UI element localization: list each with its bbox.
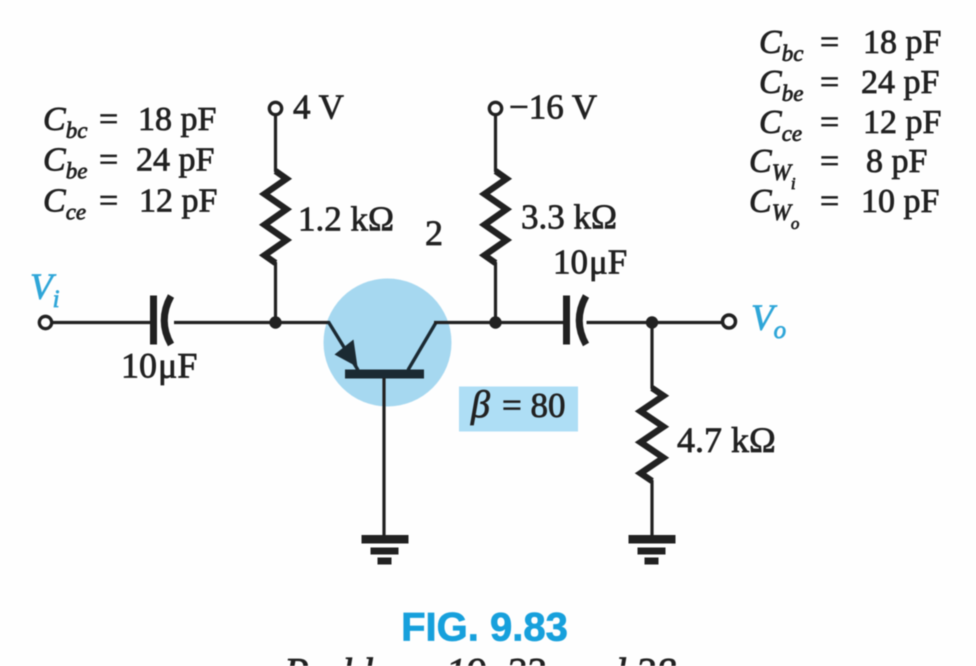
svg-text:12 pF: 12 pF <box>139 183 217 220</box>
wire R2 to node C <box>494 262 497 323</box>
transistor Q1 emitter diagonal <box>329 322 359 370</box>
transistor Q1 emitter arrow <box>335 340 358 368</box>
svg-text:FIG. 9.83: FIG. 9.83 <box>401 606 568 650</box>
svg-text:10 pF: 10 pF <box>861 183 939 220</box>
svg-text:=: = <box>99 101 118 138</box>
svg-text:Cce: Cce <box>43 183 86 225</box>
capacitor C1 left plate <box>150 296 157 345</box>
wire -16V terminal to R2 <box>494 115 497 173</box>
capacitor C2 left plate <box>563 296 570 345</box>
svg-text:4 V: 4 V <box>293 88 344 127</box>
wire node C to C2 <box>496 321 565 324</box>
svg-text:Cbe: Cbe <box>759 64 803 106</box>
svg-text:Problems 19, 23, and 38: Problems 19, 23, and 38 <box>283 650 676 666</box>
svg-text:−16 V: −16 V <box>509 88 597 127</box>
svg-text:Cbc: Cbc <box>43 101 87 143</box>
svg-text:=: = <box>99 142 118 179</box>
label beta box highlight <box>459 387 578 432</box>
label Cce right line 3 <box>759 104 941 146</box>
label Cbe right line 2 <box>759 64 939 106</box>
label CWo right line 5 <box>749 183 939 233</box>
svg-text:1.2 kΩ: 1.2 kΩ <box>298 200 394 239</box>
svg-text:=: = <box>820 183 839 220</box>
wire 4V terminal to R1 <box>274 115 277 173</box>
ground symbol right <box>629 535 676 565</box>
svg-text:Cbc: Cbc <box>759 24 803 66</box>
node D junction dot <box>646 316 658 328</box>
svg-text:18 pF: 18 pF <box>138 101 216 138</box>
svg-text:10μF: 10μF <box>553 243 627 282</box>
transistor Q1 collector diagonal <box>408 323 436 371</box>
svg-text:12 pF: 12 pF <box>863 104 941 141</box>
wire collector to node C <box>434 321 496 324</box>
svg-text:4.7 kΩ: 4.7 kΩ <box>677 420 776 460</box>
capacitor C2 right curved plate <box>579 296 586 345</box>
wire C1 to node B <box>174 321 276 324</box>
wire node D to R3 <box>650 323 653 390</box>
svg-text:=: = <box>820 104 839 141</box>
transistor Q1 highlight circle <box>324 279 452 407</box>
label Cce left line 3 <box>43 183 217 225</box>
wire R1 to node B <box>274 262 277 323</box>
label CWi right line 4 <box>749 143 927 193</box>
svg-text:= 80: = 80 <box>502 386 566 425</box>
capacitor C1 right curved plate <box>164 296 171 345</box>
svg-text:2: 2 <box>425 213 443 253</box>
svg-text:3.3 kΩ: 3.3 kΩ <box>521 198 617 237</box>
svg-text:β: β <box>470 384 490 426</box>
wire node B to transistor emitter <box>276 321 331 324</box>
svg-text:10μF: 10μF <box>121 346 197 386</box>
node Vi input terminal <box>39 316 51 328</box>
wire C2 to node D <box>587 321 653 324</box>
svg-text:=: = <box>99 183 118 220</box>
resistor R2 3.3k zigzag <box>485 171 507 263</box>
wire node D to Vo terminal <box>652 321 723 324</box>
node -16V supply terminal <box>489 102 501 114</box>
svg-text:24 pF: 24 pF <box>136 142 214 179</box>
node 4V supply terminal <box>269 102 281 114</box>
svg-text:Vo: Vo <box>751 298 786 344</box>
svg-text:18 pF: 18 pF <box>863 24 941 61</box>
svg-text:8 pF: 8 pF <box>866 143 927 180</box>
node B junction dot <box>269 316 281 328</box>
svg-text:Vi: Vi <box>30 267 60 313</box>
svg-text:Cce: Cce <box>759 104 802 146</box>
svg-text:Cbe: Cbe <box>43 142 87 184</box>
ground symbol left <box>362 535 409 565</box>
wire input terminal to C1 <box>52 321 152 324</box>
svg-text:24 pF: 24 pF <box>861 64 939 101</box>
resistor R3 4.7k zigzag <box>641 388 664 481</box>
label Cbc left line 1 <box>43 101 216 143</box>
label Cbc right line 1 <box>759 24 941 66</box>
label Cbe left line 2 <box>43 142 214 184</box>
svg-text:=: = <box>820 143 839 180</box>
node Vo output terminal <box>723 315 736 328</box>
node C junction dot <box>489 316 501 328</box>
wire R3 to ground <box>650 480 653 537</box>
transistor Q1 base bar <box>345 370 424 379</box>
wire base down to ground <box>382 378 385 537</box>
svg-text:=: = <box>820 24 839 61</box>
svg-text:=: = <box>820 64 839 101</box>
resistor R1 1.2k zigzag <box>265 171 287 263</box>
